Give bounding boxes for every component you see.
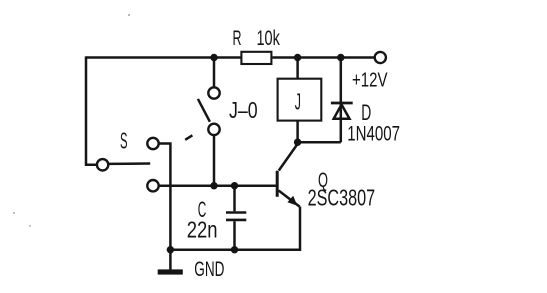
- svg-text:GND: GND: [194, 257, 224, 281]
- svg-text:1N4007: 1N4007: [347, 122, 400, 145]
- svg-text:J–0: J–0: [229, 97, 258, 123]
- svg-text:J: J: [295, 89, 301, 115]
- svg-text:+12V: +12V: [352, 70, 388, 92]
- svg-text:10k: 10k: [257, 27, 281, 50]
- svg-text:22n: 22n: [187, 217, 218, 243]
- svg-text:D: D: [361, 100, 371, 125]
- svg-text:2SC3807: 2SC3807: [308, 185, 376, 211]
- svg-text:R: R: [233, 27, 242, 50]
- svg-text:S: S: [120, 128, 128, 154]
